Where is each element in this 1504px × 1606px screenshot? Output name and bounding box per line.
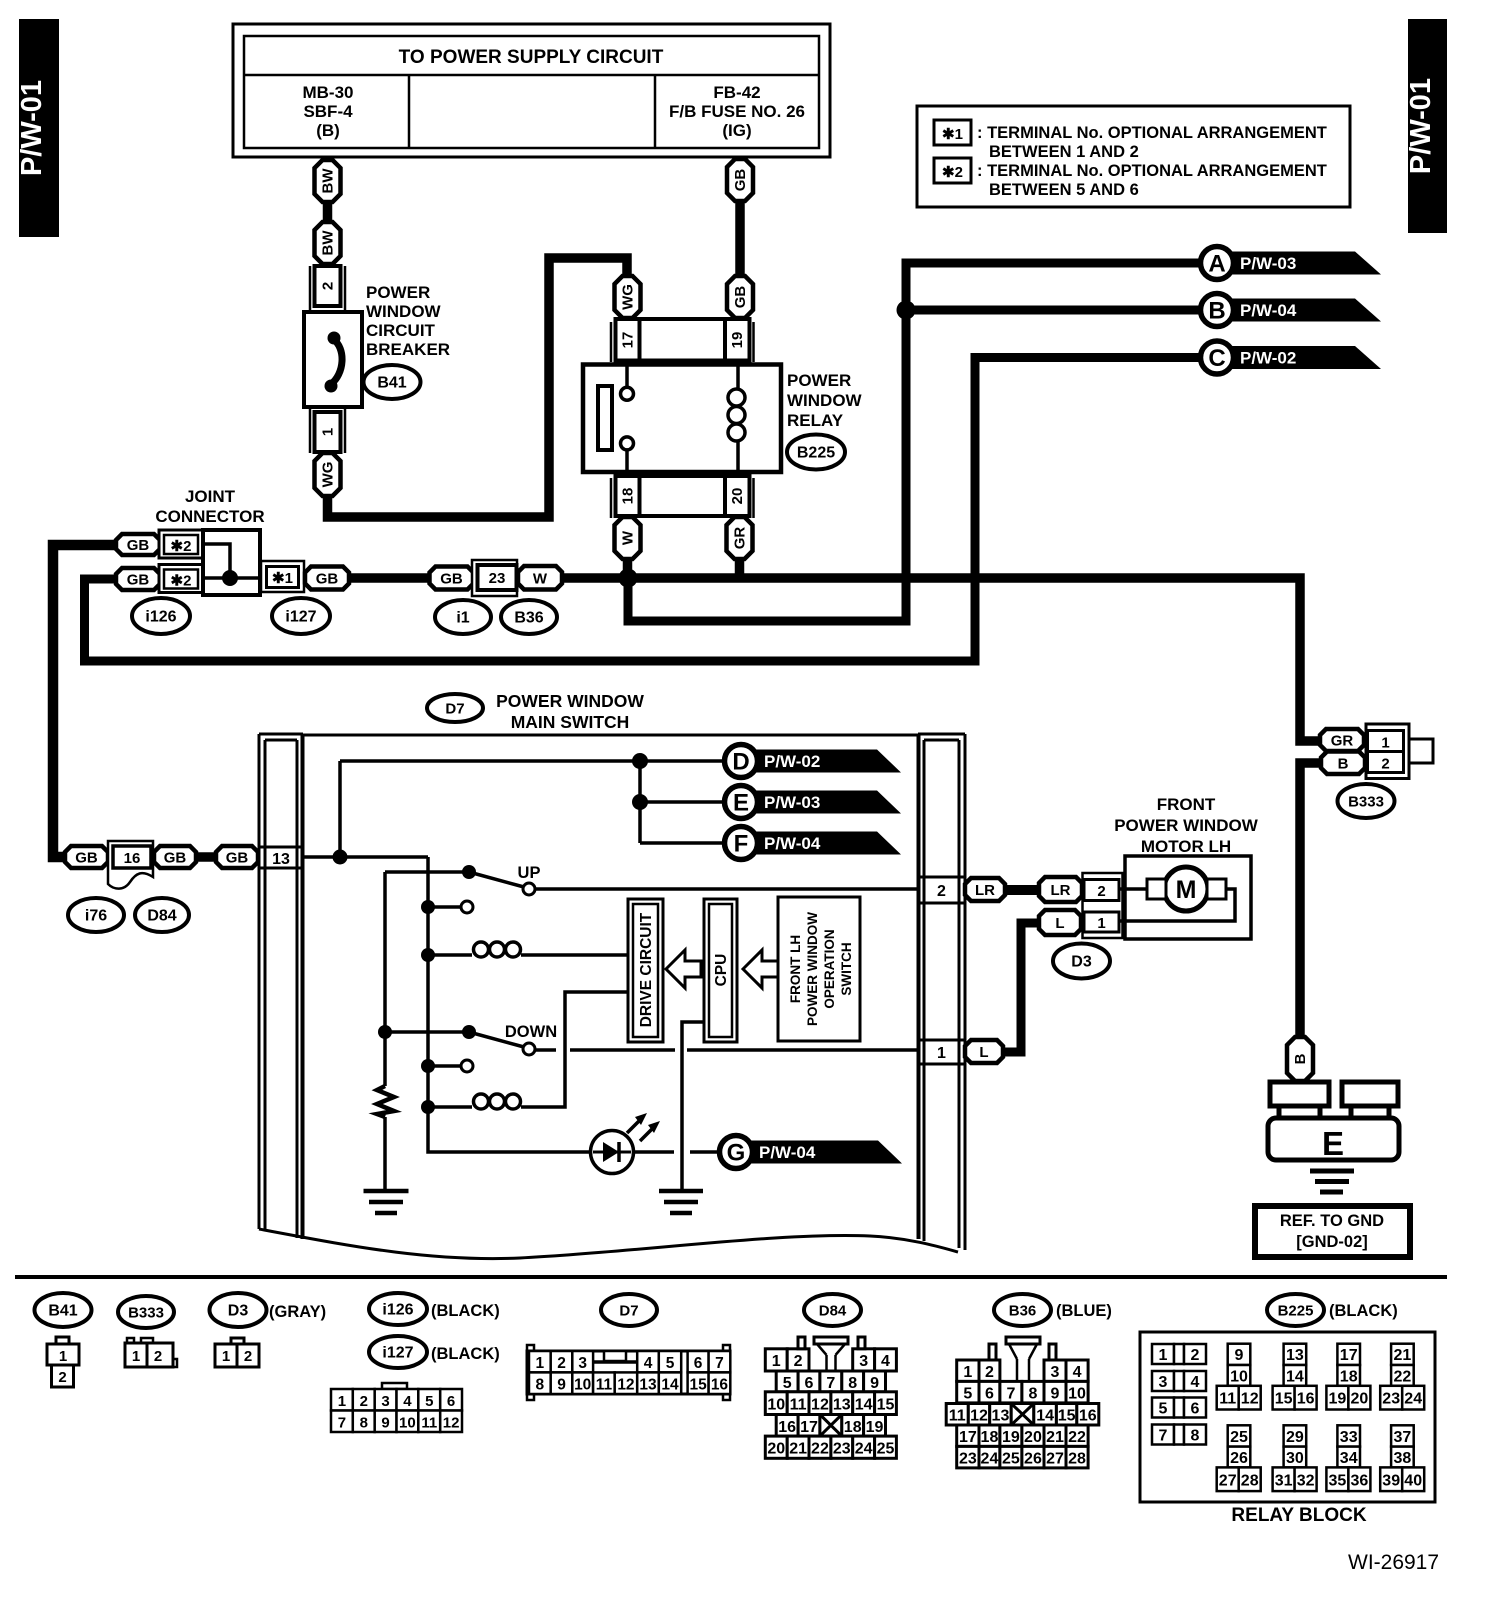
- svg-text:(BLUE): (BLUE): [1056, 1302, 1112, 1320]
- svg-text:JOINT: JOINT: [185, 487, 236, 506]
- svg-text:9: 9: [557, 1377, 566, 1394]
- svg-text:28: 28: [1068, 1451, 1086, 1468]
- svg-text:14: 14: [855, 1397, 873, 1414]
- svg-text:25: 25: [877, 1441, 895, 1458]
- wire GB to GB: [195, 852, 217, 862]
- connector BW (top): [315, 160, 341, 202]
- svg-text:P/W-03: P/W-03: [1240, 254, 1296, 273]
- breaker terminal 1: [310, 409, 345, 453]
- svg-text:27: 27: [1046, 1451, 1064, 1468]
- motor terminal 2: [1083, 873, 1123, 938]
- svg-text:4: 4: [1191, 1374, 1200, 1391]
- svg-text:(BLACK): (BLACK): [431, 1345, 500, 1363]
- svg-text:24: 24: [855, 1441, 873, 1458]
- svg-text:18: 18: [981, 1429, 999, 1446]
- svg-text:B333: B333: [128, 1305, 164, 1322]
- svg-text:(GRAY): (GRAY): [269, 1303, 326, 1321]
- coil DOWN winding to drive circuit: [421, 992, 628, 1114]
- front power window motor LH: [1120, 856, 1251, 939]
- svg-text:FRONT: FRONT: [1157, 795, 1216, 814]
- relay terminal band bottom with pins 18 and 20: [611, 476, 754, 518]
- svg-text:D7: D7: [619, 1303, 638, 1320]
- svg-text:16: 16: [1079, 1408, 1097, 1425]
- svg-text:GB: GB: [127, 537, 150, 554]
- svg-text:19: 19: [866, 1419, 884, 1436]
- svg-text:25: 25: [1230, 1429, 1248, 1446]
- svg-text:P/W-04: P/W-04: [764, 834, 821, 853]
- connector ref i126: [132, 598, 190, 634]
- connector GB left of D84 flag: [65, 846, 108, 868]
- connector BW (second): [315, 222, 341, 264]
- svg-text:1: 1: [772, 1353, 781, 1370]
- svg-text:10: 10: [1230, 1369, 1248, 1386]
- terminal *2 row2: [159, 565, 203, 593]
- svg-text:POWER WINDOW: POWER WINDOW: [1114, 816, 1258, 835]
- svg-text:2: 2: [154, 1348, 162, 1365]
- svg-text:4: 4: [644, 1355, 653, 1372]
- i126 i127 connector pin diagram: [331, 1383, 462, 1432]
- svg-text:B: B: [1338, 755, 1349, 772]
- svg-text:OPERATION: OPERATION: [822, 929, 837, 1008]
- relay block pin diagram: [1140, 1332, 1435, 1502]
- arrow F to P/W-04: [725, 827, 902, 860]
- svg-text:WG: WG: [620, 284, 637, 310]
- wire B333 pin2 to ground: [1300, 763, 1321, 1039]
- connector ref B225 pinout: [1267, 1294, 1398, 1326]
- svg-text:G: G: [727, 1140, 746, 1167]
- connector WG above relay terminal 17: [615, 276, 641, 318]
- coil UP winding to drive circuit: [421, 942, 628, 962]
- svg-text:26: 26: [1024, 1451, 1042, 1468]
- svg-text:11: 11: [949, 1408, 966, 1425]
- svg-text:4: 4: [1073, 1364, 1082, 1381]
- svg-text:B41: B41: [377, 375, 406, 392]
- svg-text:17: 17: [959, 1429, 977, 1446]
- ground symbol bus B: [364, 1191, 409, 1213]
- svg-text:28: 28: [1241, 1472, 1259, 1489]
- connector B333 body: [1366, 724, 1433, 779]
- svg-text:i127: i127: [382, 1345, 413, 1362]
- wire relay pin 20 to bus: [735, 555, 745, 578]
- joint connector body with internal link: [203, 530, 260, 595]
- svg-text:26: 26: [1230, 1450, 1248, 1467]
- svg-text:POWER WINDOW: POWER WINDOW: [496, 691, 644, 711]
- svg-text:2: 2: [1191, 1347, 1200, 1364]
- D84 flag terminal 16: [108, 841, 153, 889]
- arrow D to P/W-02: [725, 745, 902, 778]
- svg-text:: TERMINAL No. OPTIONAL ARRANG: : TERMINAL No. OPTIONAL ARRANGEMENT: [977, 162, 1327, 180]
- svg-text:4: 4: [403, 1393, 412, 1410]
- svg-text:✱1: ✱1: [272, 570, 293, 587]
- ground terminal E body: [1268, 1082, 1399, 1162]
- svg-text:39: 39: [1382, 1472, 1400, 1489]
- svg-text:1: 1: [222, 1348, 230, 1365]
- connector GB joint row1: [116, 534, 160, 555]
- svg-text:8: 8: [848, 1375, 857, 1392]
- svg-text:P/W-02: P/W-02: [764, 752, 820, 771]
- junction node bus W18: [619, 569, 638, 588]
- svg-text:37: 37: [1394, 1429, 1412, 1446]
- svg-text:WINDOW: WINDOW: [366, 302, 442, 321]
- svg-text:18: 18: [1340, 1369, 1358, 1386]
- connector LR motor side: [1039, 877, 1082, 902]
- svg-text:D3: D3: [1071, 954, 1092, 971]
- svg-text:F: F: [734, 831, 749, 858]
- svg-text:1: 1: [536, 1355, 545, 1372]
- breaker terminal 2: [310, 266, 345, 310]
- svg-text:1: 1: [937, 1045, 946, 1062]
- svg-text:9: 9: [870, 1375, 879, 1392]
- svg-text:2: 2: [360, 1393, 368, 1410]
- note box terminal optional arrangement: [917, 106, 1350, 207]
- svg-text:BETWEEN 1 AND 2: BETWEEN 1 AND 2: [989, 143, 1139, 161]
- svg-text:17: 17: [800, 1419, 818, 1436]
- svg-text:19: 19: [1002, 1429, 1020, 1446]
- svg-text:D: D: [732, 749, 749, 776]
- svg-text:GB: GB: [440, 571, 463, 588]
- svg-text:GR: GR: [732, 527, 749, 550]
- svg-text:13: 13: [833, 1397, 851, 1414]
- circuit breaker B41 box: [304, 312, 362, 407]
- svg-text:3: 3: [578, 1355, 587, 1372]
- terminal 23: [472, 560, 517, 596]
- svg-text:6: 6: [985, 1386, 994, 1403]
- svg-text:16: 16: [778, 1419, 796, 1436]
- svg-text:3: 3: [381, 1393, 389, 1410]
- svg-text:15: 15: [1058, 1408, 1076, 1425]
- svg-text:9: 9: [381, 1415, 389, 1432]
- svg-text:RELAY BLOCK: RELAY BLOCK: [1231, 1505, 1366, 1526]
- svg-text:2: 2: [1381, 756, 1389, 773]
- connector ref D84 pinout: [804, 1294, 861, 1326]
- svg-text:B41: B41: [48, 1303, 77, 1320]
- svg-text:CPU: CPU: [713, 954, 730, 987]
- svg-text:1: 1: [1159, 1347, 1168, 1364]
- svg-text:12: 12: [443, 1415, 460, 1432]
- svg-text:13: 13: [1286, 1347, 1304, 1364]
- svg-text:(BLACK): (BLACK): [1329, 1302, 1398, 1320]
- svg-text:13: 13: [272, 851, 290, 868]
- svg-text:MAIN SWITCH: MAIN SWITCH: [511, 712, 630, 732]
- svg-text:6: 6: [1191, 1401, 1200, 1418]
- svg-text:✱2: ✱2: [171, 573, 192, 590]
- D84 connector pin diagram: [765, 1337, 896, 1458]
- wire breaker chain and elbow to relay terminal 17: [328, 202, 628, 517]
- svg-text:14: 14: [661, 1377, 679, 1394]
- B333 connector pin diagram: [125, 1338, 177, 1367]
- svg-text:14: 14: [1036, 1408, 1054, 1425]
- connector B into B333 pin 2: [1321, 752, 1365, 775]
- svg-text:3: 3: [1051, 1364, 1060, 1381]
- svg-text:6: 6: [694, 1355, 703, 1372]
- svg-text:23: 23: [833, 1441, 851, 1458]
- svg-text:9: 9: [1235, 1347, 1244, 1364]
- svg-text:✱2: ✱2: [942, 164, 963, 181]
- terminal *2 row1: [159, 530, 203, 558]
- svg-text:8: 8: [536, 1377, 545, 1394]
- svg-text:1: 1: [338, 1393, 346, 1410]
- power supply source box TO POWER SUPPLY CIRCUIT: [233, 24, 830, 157]
- svg-text:BETWEEN 5 AND 6: BETWEEN 5 AND 6: [989, 181, 1139, 199]
- svg-text:E: E: [1322, 1125, 1344, 1162]
- svg-text:27: 27: [1219, 1472, 1237, 1489]
- svg-text:A: A: [1208, 251, 1225, 278]
- svg-text:B333: B333: [1348, 794, 1384, 811]
- connector GR into B333 pin 1: [1320, 729, 1364, 751]
- connector ref B41: [364, 365, 421, 399]
- svg-text:40: 40: [1404, 1472, 1422, 1489]
- arrow E to P/W-03: [725, 786, 902, 819]
- svg-text:7: 7: [826, 1375, 835, 1392]
- B41 connector pin diagram: [47, 1337, 79, 1387]
- label JOINT CONNECTOR: [155, 487, 264, 526]
- svg-text:[GND-02]: [GND-02]: [1296, 1233, 1368, 1251]
- svg-text:8: 8: [1028, 1386, 1037, 1403]
- main switch left pin strip: [259, 734, 303, 1239]
- svg-text:21: 21: [789, 1441, 807, 1458]
- arrow G to P/W-04: [720, 1136, 903, 1169]
- svg-text:GB: GB: [732, 169, 749, 192]
- connector ref D7: [427, 694, 483, 722]
- svg-text:15: 15: [1275, 1391, 1293, 1408]
- svg-text:20: 20: [767, 1441, 785, 1458]
- connector L motor side: [1039, 910, 1081, 935]
- power window relay B225 box: [583, 360, 781, 478]
- svg-text:24: 24: [981, 1451, 999, 1468]
- resistor on bus B: [377, 1086, 394, 1189]
- D7 connector pin diagram: [527, 1345, 730, 1400]
- svg-text:7: 7: [1159, 1428, 1168, 1445]
- svg-text:5: 5: [783, 1375, 792, 1392]
- svg-text:POWER: POWER: [366, 283, 430, 302]
- CPU box: [704, 899, 737, 1042]
- main switch box outline: [302, 735, 919, 1239]
- main switch torn wavy bottom edge: [259, 1229, 958, 1259]
- svg-text:WINDOW: WINDOW: [787, 391, 863, 410]
- svg-text:WG: WG: [320, 462, 337, 488]
- connector B at ground: [1287, 1037, 1313, 1081]
- svg-text:LR: LR: [975, 882, 995, 899]
- wire GB from fuse to relay terminal 19: [735, 201, 745, 282]
- svg-text:SBF-4: SBF-4: [303, 102, 353, 121]
- svg-text:35: 35: [1329, 1472, 1347, 1489]
- wire CPU ground: [682, 1022, 704, 1189]
- svg-text:B: B: [1208, 298, 1225, 325]
- svg-text:22: 22: [811, 1441, 829, 1458]
- svg-text:TO POWER SUPPLY CIRCUIT: TO POWER SUPPLY CIRCUIT: [399, 47, 664, 68]
- svg-text:GB: GB: [316, 571, 339, 588]
- svg-text:11: 11: [421, 1415, 437, 1432]
- svg-text:L: L: [979, 1044, 988, 1061]
- svg-text:D7: D7: [445, 701, 464, 718]
- svg-text:RELAY: RELAY: [787, 411, 844, 430]
- svg-text:32: 32: [1297, 1472, 1315, 1489]
- svg-text:23: 23: [489, 570, 506, 587]
- arrow CPU to drive circuit: [666, 950, 701, 988]
- terminal *1: [261, 561, 304, 592]
- note REF. TO GND: [1255, 1206, 1410, 1257]
- UP lower contact stub: [421, 900, 473, 914]
- svg-text:F/B FUSE NO. 26: F/B FUSE NO. 26: [669, 102, 805, 121]
- LED illumination diode: [591, 1113, 661, 1174]
- svg-text:11: 11: [1219, 1391, 1236, 1408]
- svg-text:10: 10: [1068, 1386, 1086, 1403]
- svg-text:C: C: [1208, 345, 1225, 372]
- connector ref D3 pinout: [210, 1293, 327, 1327]
- svg-text:CONNECTOR: CONNECTOR: [155, 507, 264, 526]
- svg-text:23: 23: [959, 1451, 977, 1468]
- wire pin13 to internal buses and D E F arrows: [303, 753, 741, 865]
- svg-text:M: M: [1176, 876, 1197, 904]
- connector GB (second): [727, 276, 753, 318]
- svg-text:8: 8: [360, 1415, 368, 1432]
- svg-text:SWITCH: SWITCH: [839, 942, 854, 995]
- main switch right pin strip: [918, 734, 965, 1250]
- D3 connector pin diagram: [215, 1338, 259, 1367]
- svg-text:3: 3: [859, 1353, 868, 1370]
- connector GB mid bus: [430, 567, 474, 590]
- svg-text:GB: GB: [732, 286, 749, 309]
- svg-text:i126: i126: [382, 1302, 413, 1319]
- svg-text:10: 10: [399, 1415, 416, 1432]
- svg-text:2: 2: [557, 1355, 566, 1372]
- svg-text:P/W-01: P/W-01: [1405, 78, 1437, 174]
- B36 connector pin diagram: [946, 1337, 1099, 1468]
- connector ref B36 pinout: [994, 1294, 1112, 1326]
- connector ref i1: [435, 600, 491, 634]
- svg-text:22: 22: [1068, 1429, 1086, 1446]
- svg-text:2: 2: [58, 1369, 66, 1386]
- svg-text:DRIVE CIRCUIT: DRIVE CIRCUIT: [638, 912, 655, 1027]
- svg-text:B: B: [1292, 1053, 1309, 1064]
- svg-text:POWER: POWER: [787, 371, 851, 390]
- svg-text:5: 5: [666, 1355, 675, 1372]
- svg-text:REF. TO GND: REF. TO GND: [1280, 1212, 1384, 1230]
- svg-text:P/W-04: P/W-04: [1240, 301, 1297, 320]
- connector WG below breaker: [315, 453, 341, 496]
- arrow C to P/W-02: [1201, 341, 1382, 374]
- svg-text:30: 30: [1286, 1450, 1304, 1467]
- svg-text:22: 22: [1394, 1369, 1412, 1386]
- svg-text:19: 19: [729, 332, 746, 349]
- svg-text:13: 13: [992, 1408, 1010, 1425]
- drive circuit box: [628, 899, 663, 1042]
- connector ref i76: [68, 898, 124, 932]
- svg-text:(BLACK): (BLACK): [431, 1302, 500, 1320]
- svg-text:10: 10: [574, 1377, 591, 1394]
- svg-text:14: 14: [1286, 1369, 1304, 1386]
- svg-text:W: W: [533, 570, 548, 587]
- svg-text:GB: GB: [127, 572, 150, 589]
- connector ref B41 pinout: [35, 1293, 92, 1327]
- svg-text:12: 12: [1241, 1391, 1259, 1408]
- svg-text:15: 15: [877, 1397, 895, 1414]
- svg-text:1: 1: [132, 1348, 140, 1365]
- svg-text:13: 13: [639, 1377, 657, 1394]
- svg-text:GB: GB: [75, 850, 98, 867]
- internal bus A vertical with LED feed: [428, 857, 592, 1152]
- svg-text:2: 2: [985, 1364, 994, 1381]
- connector ref B333 pinout: [118, 1296, 174, 1328]
- wire main bus horizontal to B333: [349, 578, 1321, 741]
- svg-text:BREAKER: BREAKER: [366, 340, 450, 359]
- svg-text:D84: D84: [819, 1303, 847, 1320]
- wire joint connector row2 down to C arrow bus: [85, 358, 1202, 662]
- connector LR at switch pin 2: [965, 878, 1005, 901]
- svg-text:P/W-03: P/W-03: [764, 793, 820, 812]
- connector ref D84: [135, 898, 189, 932]
- svg-text:4: 4: [881, 1353, 890, 1370]
- svg-text:7: 7: [715, 1355, 724, 1372]
- svg-text:15: 15: [689, 1377, 707, 1394]
- svg-text:FRONT LH: FRONT LH: [788, 935, 803, 1003]
- svg-text:BW: BW: [320, 168, 337, 194]
- wire L to motor connector: [1002, 923, 1041, 1052]
- svg-text:FB-42: FB-42: [713, 83, 760, 102]
- svg-text:E: E: [733, 790, 749, 817]
- label POWER WINDOW CIRCUIT BREAKER: [366, 283, 450, 359]
- svg-text:5: 5: [425, 1393, 433, 1410]
- svg-text:21: 21: [1046, 1429, 1064, 1446]
- label POWER WINDOW RELAY: [787, 371, 863, 430]
- connector L at switch pin 1: [965, 1040, 1003, 1063]
- connector ref B225: [787, 435, 845, 470]
- svg-text:i76: i76: [85, 908, 107, 925]
- svg-text:11: 11: [596, 1377, 613, 1394]
- svg-text:18: 18: [844, 1419, 862, 1436]
- wire branch bus to arrows A and B: [628, 263, 1201, 621]
- svg-text:17: 17: [1340, 1347, 1358, 1364]
- svg-text:✱1: ✱1: [942, 126, 963, 143]
- svg-text:CIRCUIT: CIRCUIT: [366, 321, 436, 340]
- svg-text:B36: B36: [1009, 1303, 1037, 1320]
- svg-text:1: 1: [59, 1348, 67, 1365]
- svg-text:12: 12: [617, 1377, 634, 1394]
- relay terminal band top with pins 17 and 19: [611, 319, 754, 362]
- svg-text:5: 5: [1159, 1401, 1168, 1418]
- switch UP contact: [385, 864, 918, 895]
- arrow operation switch to CPU: [743, 950, 778, 988]
- connector ref D3: [1053, 944, 1110, 979]
- DOWN lower contact stub: [421, 1059, 473, 1073]
- svg-text:DOWN: DOWN: [505, 1023, 557, 1041]
- svg-text:(IG): (IG): [722, 121, 751, 140]
- svg-text:21: 21: [1394, 1347, 1412, 1364]
- svg-text:: TERMINAL No. OPTIONAL ARRANG: : TERMINAL No. OPTIONAL ARRANGEMENT: [977, 124, 1327, 142]
- svg-text:(B): (B): [316, 121, 340, 140]
- wire relay pin 18 to bus: [623, 555, 633, 578]
- svg-text:36: 36: [1351, 1472, 1369, 1489]
- svg-text:1: 1: [1097, 915, 1105, 932]
- svg-text:i1: i1: [456, 610, 469, 627]
- svg-text:2: 2: [1097, 883, 1105, 900]
- svg-text:9: 9: [1051, 1386, 1060, 1403]
- svg-text:BW: BW: [320, 230, 337, 256]
- connector ref D7 pinout: [601, 1294, 657, 1326]
- svg-text:W: W: [620, 530, 637, 545]
- wire LED to arrow G: [633, 1150, 736, 1154]
- arrow A to P/W-03: [1201, 247, 1382, 280]
- svg-text:20: 20: [1024, 1429, 1042, 1446]
- page label banner right P/W-01: [1405, 19, 1447, 233]
- svg-text:12: 12: [811, 1397, 829, 1414]
- svg-text:12: 12: [970, 1408, 988, 1425]
- ground symbol CPU: [659, 1191, 703, 1213]
- svg-text:24: 24: [1404, 1391, 1422, 1408]
- ground symbol E: [1310, 1171, 1354, 1192]
- connector ref B36: [501, 600, 557, 634]
- svg-text:POWER WINDOW: POWER WINDOW: [805, 912, 820, 1026]
